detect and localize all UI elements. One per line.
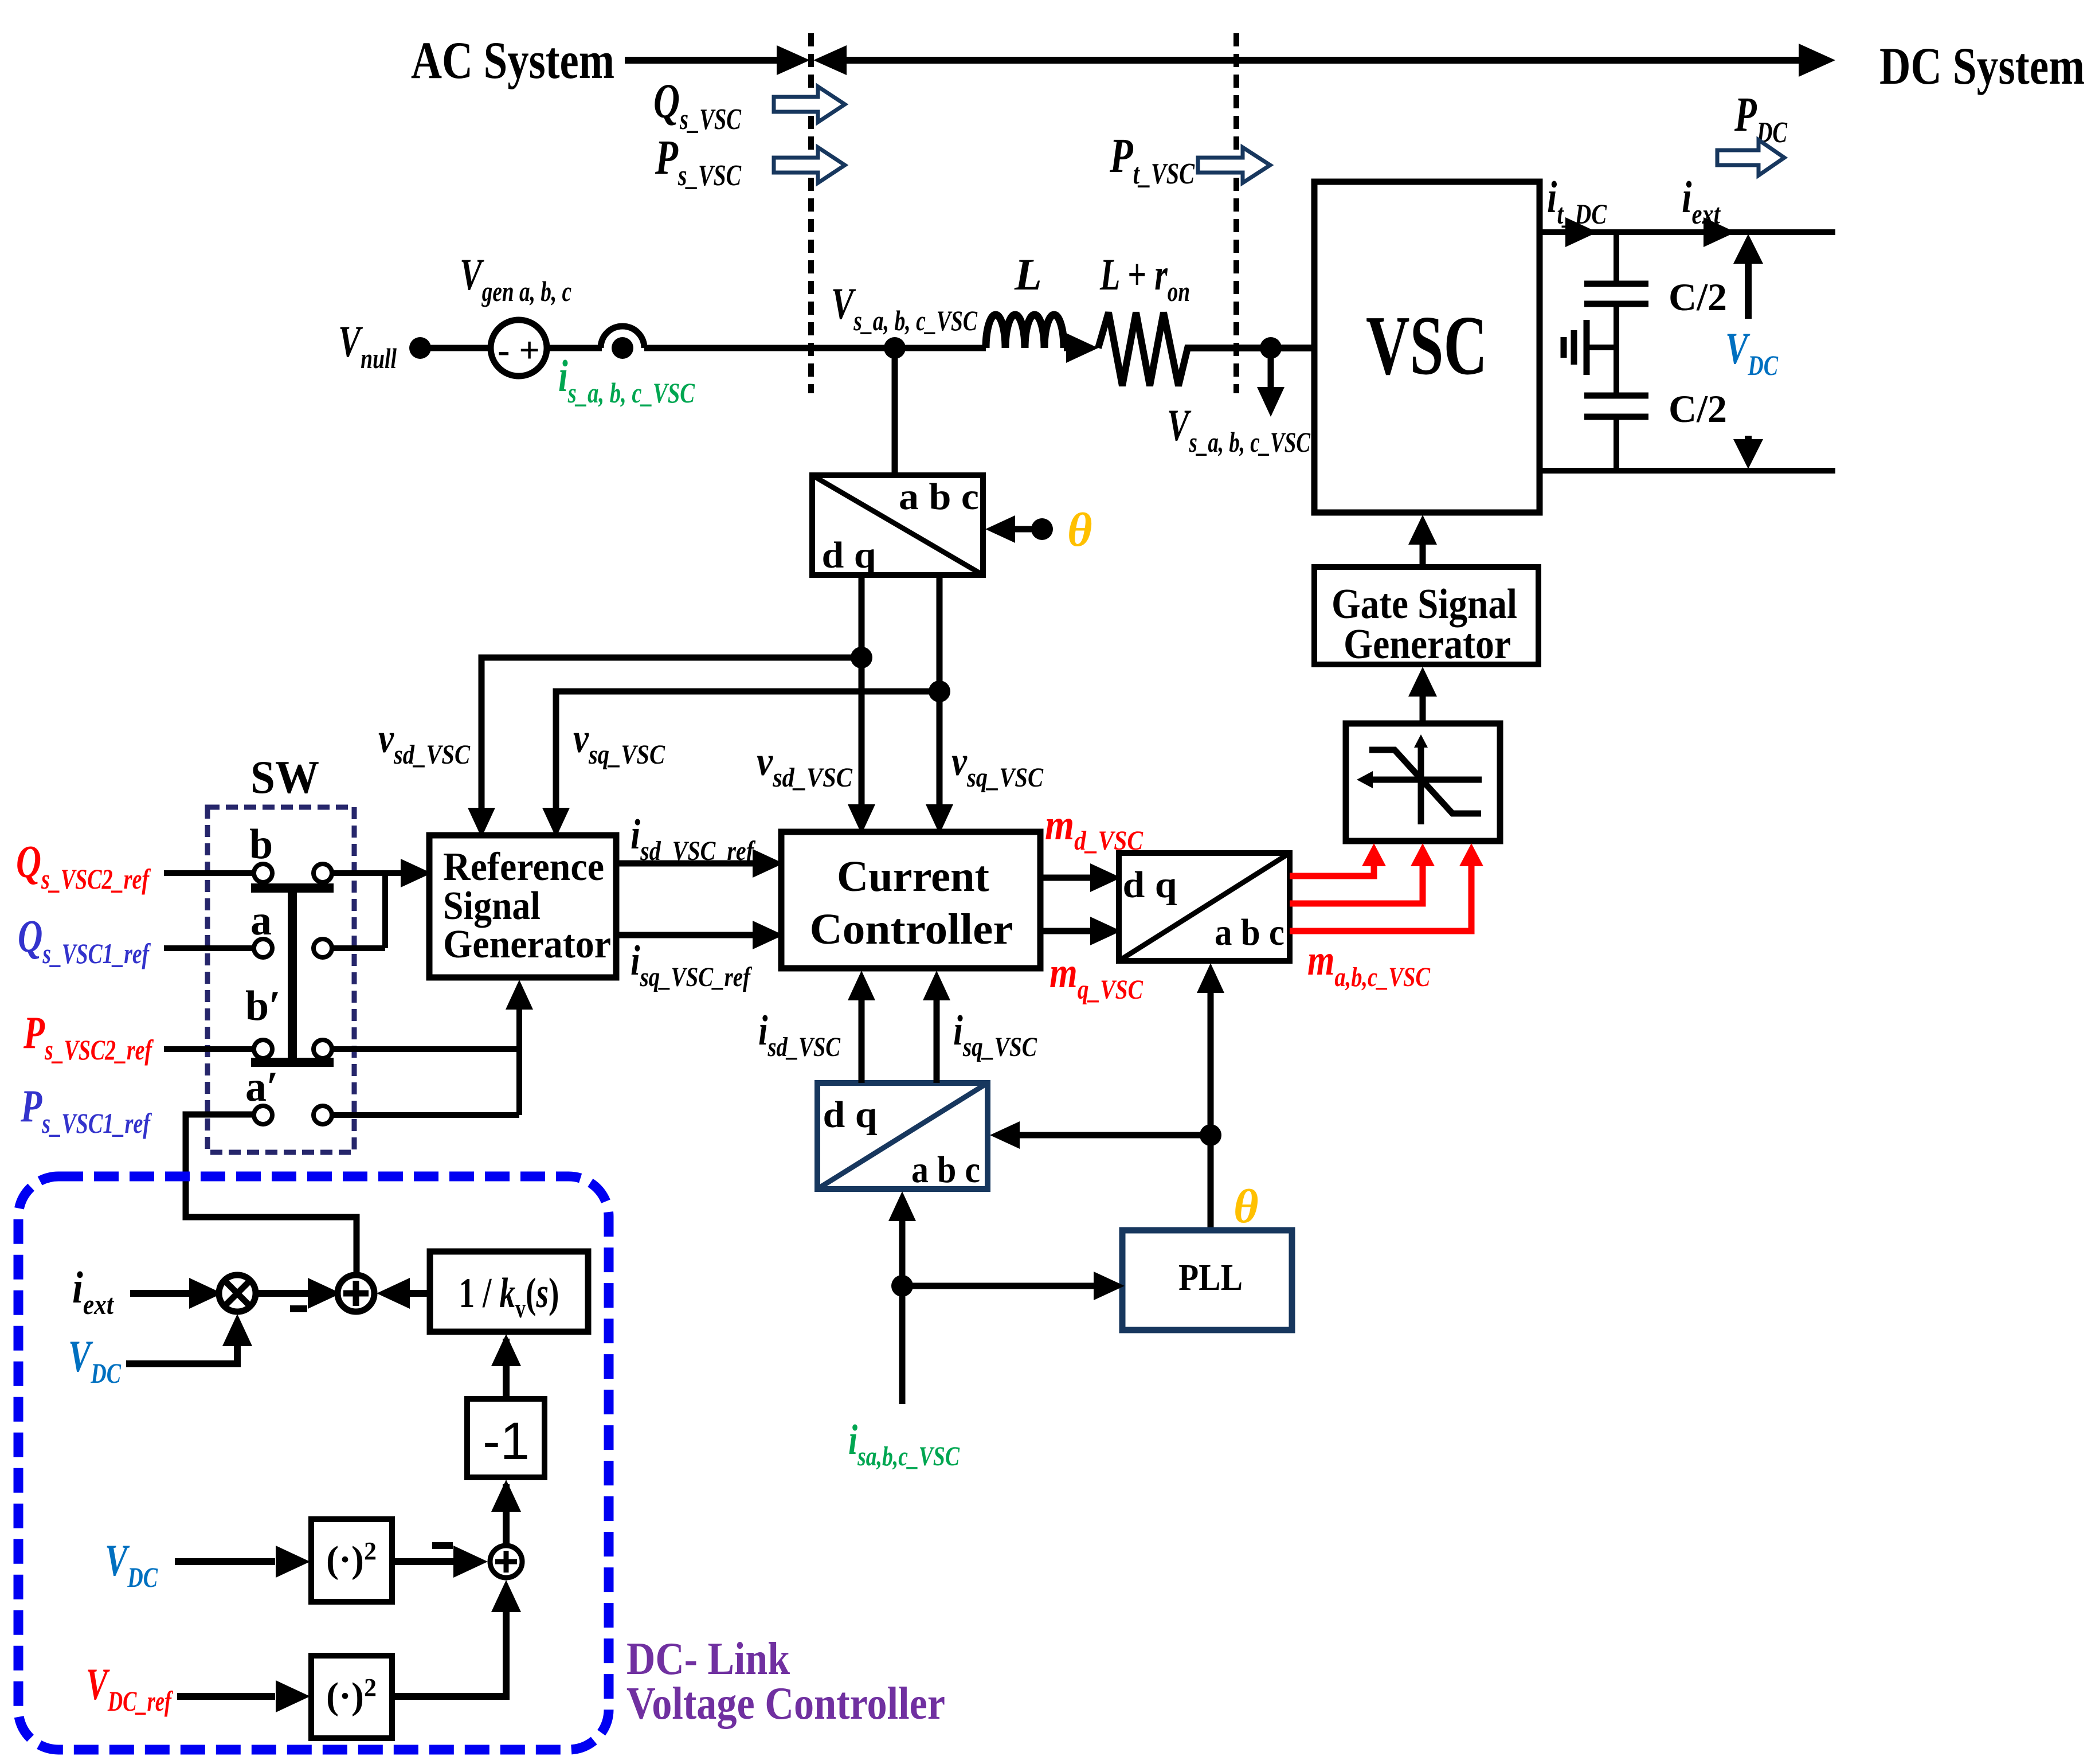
svg-text:d q: d q: [823, 1094, 878, 1136]
svg-text:DC- Link: DC- Link: [626, 1634, 790, 1684]
svg-text:Generator: Generator: [1344, 621, 1511, 668]
svg-text:C/2: C/2: [1669, 275, 1727, 319]
svg-text:a: a: [250, 897, 272, 944]
svg-text:a b c: a b c: [911, 1149, 980, 1191]
svg-text:Current: Current: [837, 852, 989, 901]
svg-text:1 / kv(s): 1 / kv(s): [459, 1270, 559, 1324]
svg-text:d q: d q: [1123, 864, 1177, 906]
svg-text:a b c: a b c: [1215, 912, 1285, 953]
svg-text:Voltage Controller: Voltage Controller: [626, 1679, 945, 1729]
svg-text:a′: a′: [245, 1063, 279, 1110]
svg-text:d q: d q: [822, 534, 876, 576]
svg-text:θ: θ: [1233, 1180, 1259, 1233]
svg-text:b: b: [249, 821, 273, 868]
svg-text:b′: b′: [245, 983, 281, 1030]
svg-text:- +: - +: [498, 330, 540, 370]
svg-text:SW: SW: [250, 751, 319, 803]
svg-text:Generator: Generator: [443, 922, 611, 967]
svg-text:Reference: Reference: [443, 845, 604, 889]
svg-text:θ: θ: [1067, 503, 1092, 557]
svg-text:Signal: Signal: [443, 884, 541, 928]
svg-text:a b c: a b c: [899, 476, 979, 518]
svg-text:Controller: Controller: [810, 905, 1013, 953]
svg-text:-1: -1: [483, 1412, 530, 1470]
svg-text:PLL: PLL: [1178, 1257, 1243, 1298]
svg-text:AC System: AC System: [411, 31, 614, 89]
svg-text:DC System: DC System: [1879, 37, 2085, 95]
svg-text:C/2: C/2: [1669, 387, 1727, 431]
svg-text:L: L: [1014, 249, 1042, 299]
svg-text:VSC: VSC: [1366, 299, 1487, 393]
